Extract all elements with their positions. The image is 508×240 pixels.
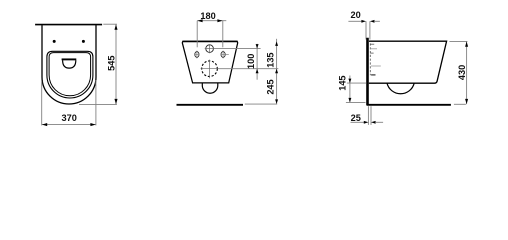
dim 430 line	[466, 41, 468, 104]
dim 180 line	[197, 20, 226, 22]
side bowl bump arc	[387, 83, 414, 94]
fixing hole left	[53, 40, 56, 43]
dim 25 line left segment	[351, 121, 365, 123]
dim 430 extension top	[449, 40, 467, 42]
inlet extension line to dims	[214, 48, 260, 50]
concealed dash d	[371, 65, 381, 67]
inlet crosshair horizontal	[205, 48, 215, 50]
top view outline trapezoid	[182, 41, 237, 83]
dim 20 arrow right	[370, 20, 375, 23]
dim 545 arrow bottom	[114, 99, 117, 104]
svg-text:145: 145	[338, 75, 348, 90]
flush opening bar	[62, 58, 77, 60]
dim 100 arrow top	[256, 44, 259, 49]
outlet bump	[202, 83, 218, 93]
floor extension	[454, 103, 466, 105]
dim 25 extension left	[367, 106, 369, 125]
flush opening arc	[63, 60, 76, 68]
dim 245 arrow top	[275, 69, 278, 74]
outlet crosshair vertical	[209, 60, 211, 79]
dim 25 line right segment	[375, 121, 383, 123]
dim 370 arrow left	[42, 123, 47, 126]
svg-text:25: 25	[351, 113, 361, 123]
concealed pipe dashed vertical	[369, 43, 371, 75]
dim 145 line	[349, 76, 351, 103]
dim 545 extension top	[103, 23, 117, 25]
dim 180 arrow left	[197, 19, 202, 22]
dim 25 extension right	[370, 106, 372, 125]
dim 180 extension left	[196, 21, 198, 48]
outlet dashed circle	[202, 61, 218, 77]
outlet extension line to dims	[219, 68, 279, 70]
svg-text:100: 100	[246, 54, 256, 69]
dim 25 arrow right	[371, 121, 376, 124]
svg-text:245: 245	[266, 79, 276, 94]
dim 370 extension left	[41, 81, 43, 125]
dim 370 arrow right	[90, 123, 95, 126]
dim 370 line	[42, 124, 96, 126]
dim 180 arrow right	[217, 19, 222, 22]
dim 20 extension left	[365, 21, 367, 39]
outlet crosshair horizontal	[201, 68, 219, 70]
concealed dash b	[370, 48, 377, 50]
concealed dash e	[371, 74, 375, 76]
dim 135-245 line	[276, 39, 278, 104]
dim 100 line	[256, 44, 258, 80]
floor line	[367, 104, 451, 106]
dim 245 arrow bottom	[275, 99, 278, 104]
bolt hole right	[221, 51, 229, 59]
svg-text:370: 370	[62, 113, 77, 123]
top view wall edge emphasis	[182, 40, 237, 42]
svg-text:430: 430	[457, 65, 467, 80]
svg-text:545: 545	[107, 56, 117, 71]
dim 545 line	[115, 24, 117, 104]
dim 145 arrow top	[348, 79, 351, 84]
dim 100 arrow bottom	[256, 69, 259, 74]
dim 545 arrow top	[114, 25, 117, 30]
dim 145 arrow bottom	[348, 98, 351, 103]
top view wall line	[177, 104, 244, 106]
dim 20 arrow left	[361, 20, 366, 23]
dim 20 line left segment	[348, 20, 362, 22]
dim 430 arrow bottom	[465, 99, 468, 104]
svg-text:20: 20	[350, 10, 360, 20]
side wall line	[366, 38, 369, 106]
wall plate line	[35, 24, 102, 26]
dim 545 extension bottom	[79, 104, 117, 106]
concealed dash c	[370, 52, 373, 54]
fixing hole right	[82, 40, 85, 43]
dim 20 extension right	[369, 21, 371, 39]
dim 145 extension bottom	[346, 101, 366, 103]
svg-text:135: 135	[265, 52, 275, 67]
rim inner outline	[49, 53, 91, 96]
top view wall extension	[245, 103, 277, 105]
bolt hole left	[194, 51, 199, 59]
front body outline	[42, 25, 96, 104]
dim 145 extension top	[347, 82, 366, 84]
inlet circle	[206, 45, 214, 53]
dim 20 line right segment	[374, 20, 380, 22]
side profile outline	[369, 41, 447, 83]
dim 430 arrow top	[465, 42, 468, 47]
dim 25 arrow left	[364, 121, 369, 124]
rim outer outline	[47, 51, 93, 98]
dim 180 extension right	[222, 21, 224, 48]
dim 135 arrow top	[275, 41, 278, 46]
concealed dash a	[370, 43, 374, 45]
dim 370 extension right	[95, 80, 97, 125]
svg-text:180: 180	[200, 11, 215, 21]
inlet crosshair vertical	[209, 44, 211, 53]
